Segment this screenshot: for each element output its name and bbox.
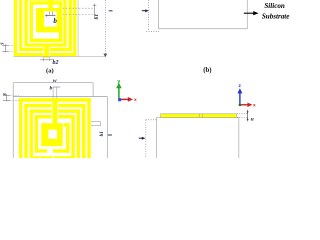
spiral (c) feed gap left (51, 103, 54, 119)
spiral (a) inner turn block (36, 8, 62, 32)
thickness dimension arrow line (d) (247, 110, 249, 122)
substrate box (b) (159, 0, 248, 29)
rotated label tick (a) (109, 10, 113, 12)
small navy arrow (d) (139, 137, 143, 139)
dimension arrow bottom (a) (103, 54, 107, 58)
w left extension line (c) (12, 83, 14, 158)
metal layer bar (d) (161, 114, 237, 118)
spiral (a) turn R4 (31, 3, 60, 40)
svg-text:y: y (117, 79, 120, 85)
spiral (a) bottom feed gap right (48, 47, 51, 58)
spiral (c) top bar turn3 (30, 109, 81, 113)
svg-text:Silicon: Silicon (264, 1, 285, 10)
spiral (c) right stripe turn3 (77, 109, 80, 159)
spiral (c) bottom bar turn4 (30, 156, 53, 158)
w right extension line (c) (92, 83, 94, 97)
height dimension dotted line (d) (145, 120, 147, 158)
spiral (c) bottom bar turn5 (35, 149, 47, 152)
svg-text:b: b (53, 17, 57, 25)
spiral (a) turn R2 (21, 0, 71, 49)
w dimension line (c) (13, 82, 93, 84)
inner dimension lines right (c) (91, 121, 101, 123)
dimension s lines (a) (4, 44, 6, 52)
overall dimension line right (c) (106, 97, 108, 159)
spiral (c) feed gap right (56, 103, 59, 119)
substrate box (d) (157, 118, 239, 159)
feed extension lines (a) (49, 11, 51, 15)
right edge extension line (a) (77, 0, 79, 57)
svg-text:z: z (238, 84, 241, 89)
svg-text:b1: b1 (99, 131, 105, 137)
spiral (c) right stripe turn5 (66, 123, 69, 153)
spiral (c) left stripe turn2 (24, 104, 27, 158)
axes icon xz origin dot (239, 104, 242, 107)
dimension line b (a) (45, 15, 55, 17)
spiral (c) top bar turn2 (24, 104, 85, 108)
spiral (c) right stripe turn1 (87, 98, 90, 158)
spiral (a) bottom feed trace (44, 44, 49, 58)
spiral (c) top feed trace (53, 98, 58, 123)
spiral (a) inner core opening (44, 11, 57, 27)
svg-text:b: b (50, 85, 53, 91)
feed extension lines (c) (52, 87, 54, 98)
axes icon xz red arrow (240, 104, 249, 106)
overall height dimension line (a) (104, 0, 106, 57)
spiral (c) top bar turn1 (19, 98, 91, 102)
spiral (c) left stripe turn4 (35, 115, 38, 153)
svg-text:u: u (251, 117, 254, 123)
svg-text:b2: b2 (53, 60, 59, 66)
dimension b1 dashes (a) (63, 7, 95, 9)
spiral (c) top bar turn4 (35, 115, 75, 119)
dimension b2 extension lines (a) (42, 56, 44, 61)
spiral (c) block top extension to turn5 (64, 123, 70, 126)
annotation arrow to silicon substrate (244, 12, 254, 14)
via tick marks in bar (d) (198, 114, 200, 118)
spiral (a) bottom feed gap left (42, 47, 45, 58)
baseline extension (a) (14, 56, 106, 58)
svg-text:(a): (a) (46, 68, 54, 75)
axes icon xy green arrow (118, 87, 120, 100)
spiral inductor (a) outer turn R1 (15, 0, 74, 55)
spiral (c) inner core opening (48, 130, 57, 139)
axes icon xy origin dot (118, 98, 121, 101)
top extension line (c) (13, 96, 107, 98)
thickness dimension dotted lines (d) (237, 113, 248, 115)
spiral (c) left stripe turn1 (19, 98, 22, 158)
spiral (a) turn R3 (26, 0, 65, 45)
dimension b tick line (c) (53, 86, 60, 88)
small navy arrow (b) (142, 10, 146, 12)
svg-text:Substrate: Substrate (262, 12, 290, 21)
axes icon xz blue arrow (239, 92, 241, 105)
rotated label tick (c) (108, 134, 112, 136)
spiral (a) top feed trace (48, 0, 53, 8)
height dimension dotted line (b) (148, 0, 150, 31)
dimension ticks left (c) (6, 94, 8, 101)
spiral (c) left stripe turn3 (30, 109, 33, 158)
spiral (c) inner turn block (41, 123, 63, 146)
svg-text:(b): (b) (203, 67, 211, 74)
svg-text:s: s (0, 42, 5, 46)
spiral (c) right stripe turn2 (82, 104, 85, 158)
dimension b1 extension (a) (94, 4, 96, 19)
svg-text:x: x (253, 103, 256, 108)
svg-text:x: x (134, 98, 137, 103)
axes icon xy red arrow (120, 98, 130, 100)
svg-text:w: w (53, 78, 57, 84)
spiral (c) right stripe turn4 (71, 115, 74, 160)
svg-text:b1: b1 (94, 14, 100, 20)
dimension b2 line (a) (40, 59, 53, 61)
